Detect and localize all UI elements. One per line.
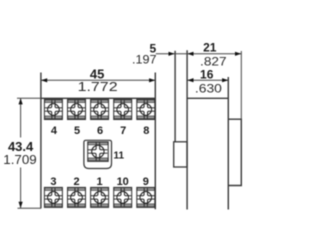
svg-text:21: 21 (203, 41, 217, 55)
svg-text:7: 7 (120, 125, 126, 137)
dim 16 right arrow (222, 78, 228, 82)
dim 5 left arrow (169, 52, 175, 56)
svg-text:1.709: 1.709 (3, 152, 36, 167)
dim 45 line (41, 79, 155, 81)
dim 21 right arrow (235, 52, 241, 56)
svg-text:8: 8 (143, 125, 149, 137)
dim 16 line (187, 79, 228, 81)
body top edge (187, 97, 228, 99)
svg-text:1.772: 1.772 (78, 79, 118, 94)
flange front edge (174, 51, 176, 142)
body left edge (186, 50, 188, 209)
terminal 2 (68, 187, 86, 207)
terminal 6 (91, 100, 109, 120)
svg-text:3: 3 (50, 176, 56, 188)
extension line right (21) (240, 51, 242, 119)
rear protrusion (228, 119, 241, 185)
body right edge (227, 77, 229, 210)
svg-text:1: 1 (97, 176, 103, 188)
terminal 9 (137, 187, 155, 207)
front view top edge (41, 97, 155, 99)
svg-text:6: 6 (97, 125, 103, 137)
svg-text:16: 16 (200, 68, 214, 82)
front view right edge (154, 73, 156, 210)
svg-text:.630: .630 (195, 82, 222, 96)
dim 45 left arrow (41, 78, 47, 82)
dim 45 right arrow (149, 78, 155, 82)
dim 43.4 top arrow (19, 98, 23, 104)
dim 43.4 line upper (20, 98, 22, 137)
svg-text:.827: .827 (200, 54, 227, 68)
terminal 7 (114, 100, 132, 120)
dim 43.4 ext bottom (18, 207, 42, 209)
svg-text:4: 4 (51, 125, 58, 137)
dim 16 left arrow (187, 78, 193, 82)
terminal 5 (68, 100, 86, 120)
terminal 3 (44, 187, 62, 207)
dim 43.4 line lower (20, 168, 22, 209)
dim 5 right / 21 left arrow (187, 52, 193, 56)
svg-text:.197: .197 (132, 53, 157, 67)
dim 43.4 ext top (17, 97, 41, 99)
terminal 8 (137, 100, 155, 120)
terminal 11 outer box (84, 140, 112, 168)
terminal 1 (91, 187, 109, 207)
terminal 4 (44, 100, 62, 120)
svg-text:11: 11 (114, 151, 125, 162)
flange clamp (174, 142, 187, 167)
terminal 11 screw (88, 142, 109, 162)
terminal 10 (114, 187, 132, 207)
dim 43.4 bottom arrow (19, 202, 23, 208)
svg-text:10: 10 (117, 176, 129, 188)
front view left edge (40, 73, 42, 209)
svg-text:9: 9 (143, 176, 149, 188)
dim 5/21 shared line (156, 53, 241, 55)
svg-text:5: 5 (74, 125, 80, 137)
svg-text:2: 2 (73, 176, 79, 188)
